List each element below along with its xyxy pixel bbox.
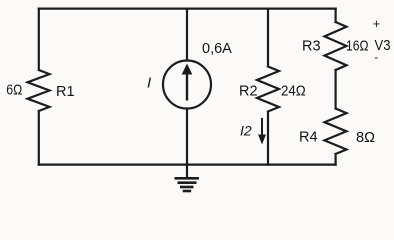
svg-text:16Ω: 16Ω (346, 39, 369, 55)
svg-text:+: + (373, 17, 380, 31)
svg-text:I2: I2 (240, 123, 252, 139)
svg-text:R2: R2 (239, 84, 258, 100)
svg-text:6Ω: 6Ω (6, 82, 22, 98)
svg-text:R1: R1 (56, 84, 75, 100)
svg-text:R4: R4 (299, 130, 318, 146)
svg-text:24Ω: 24Ω (281, 84, 306, 100)
svg-text:I: I (147, 75, 151, 92)
svg-text:-: - (374, 50, 378, 64)
svg-text:0,6A: 0,6A (202, 41, 232, 57)
svg-text:8Ω: 8Ω (356, 130, 375, 146)
svg-text:R3: R3 (302, 39, 321, 55)
